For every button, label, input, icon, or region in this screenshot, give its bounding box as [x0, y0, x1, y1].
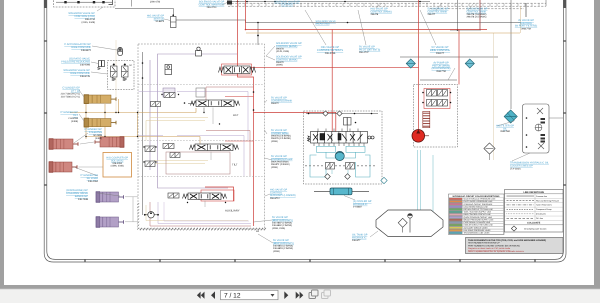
svg-text:RETURN CIRCUIT TO TANK LINE: RETURN CIRCUIT TO TANK LINE [464, 208, 494, 211]
svg-text:(7 A-CM2): (7 A-CM2) [510, 167, 521, 170]
charge pump circuit [310, 146, 370, 177]
svg-text:246-8745: 246-8745 [80, 75, 91, 78]
svg-text:MAIN HYDRAULIC PRESSURE LINE: MAIN HYDRAULIC PRESSURE LINE [464, 198, 497, 201]
svg-text:PILOT (DETENTS): PILOT (DETENTS) [359, 48, 380, 51]
svg-text:COLLIGATE: COLLIGATE [527, 222, 541, 225]
pilot supply line [306, 113, 378, 115]
cylinder connection wires [79, 142, 139, 222]
svg-text:246-8854 (2 BANK): 246-8854 (2 BANK) [273, 245, 293, 248]
svg-text:2-H3887: 2-H3887 [353, 206, 363, 209]
wire orange lines [70, 33, 520, 139]
charge pump [335, 151, 344, 160]
svg-text:TILT: TILT [232, 163, 238, 167]
svg-text:246-7638: 246-7638 [78, 198, 89, 201]
seat valve [171, 17, 177, 28]
reducing valve block [344, 118, 352, 126]
svg-text:HYDRAULIC: HYDRAULIC [352, 236, 367, 239]
svg-text:(4145, 4346): (4145, 4346) [276, 50, 289, 53]
svg-text:(4396): (4396) [71, 120, 78, 123]
svg-text:M: M [130, 64, 132, 67]
coupler cylinder 2 [96, 217, 124, 228]
svg-text:CASE DRAIN / LEAKAGE LINE: CASE DRAIN / LEAKAGE LINE [464, 221, 491, 224]
wire teal return lines [332, 150, 433, 222]
svg-text:QUICK COUPLER CIRCUIT LINE: QUICK COUPLER CIRCUIT LINE [464, 216, 493, 219]
svg-text:296476 (2.5 BANK): 296476 (2.5 BANK) [271, 137, 291, 140]
breather [484, 143, 495, 154]
check valve [165, 65, 172, 75]
enclosure pilot filter manifold [304, 111, 383, 184]
svg-text:296478: 296478 [371, 13, 379, 16]
quick coupler group box [103, 153, 132, 178]
svg-text:296477M: 296477M [436, 70, 446, 73]
enclosure ride control block [108, 61, 135, 90]
svg-text:(4396): (4396) [276, 64, 283, 67]
svg-text:HIGH NUMBER REVISIONS UP: HIGH NUMBER REVISIONS UP [468, 242, 500, 245]
svg-text:246-8862 (2 BANK): 246-8862 (2 BANK) [272, 224, 292, 227]
svg-text:296478 (2.8 BANK): 296478 (2.8 BANK) [271, 135, 291, 138]
svg-text:LINE DEFINITIONS: LINE DEFINITIONS [523, 191, 544, 194]
svg-text:FAN DRIVE PRESSURE LINES: FAN DRIVE PRESSURE LINES [464, 229, 492, 232]
note box [466, 238, 564, 254]
svg-text:STEERING CIRCUIT PRESSURE: STEERING CIRCUIT PRESSURE [464, 203, 493, 206]
svg-text:Diagrams as down loads on CAT: Diagrams as down loads on CAT portal med… [468, 247, 511, 250]
hand pump [148, 212, 154, 218]
svg-text:Oil - line: Oil - line [536, 217, 543, 220]
svg-text:296478 (2.5 BANK): 296478 (2.5 BANK) [467, 16, 487, 19]
svg-text:Oil sampling valve location: Oil sampling valve location [524, 227, 546, 230]
main hydraulic manifold [307, 132, 374, 144]
enclosure main control valve [138, 44, 265, 229]
svg-text:HYDRAULIC CIRCUIT COLOR DESCRI: HYDRAULIC CIRCUIT COLOR DESCRIPTIONS [453, 195, 500, 198]
toolbar [0, 289, 600, 303]
enclosure pilot control manifold [54, 0, 116, 7]
svg-text:(W PORT FILTERS): (W PORT FILTERS) [515, 25, 538, 28]
auxiliary section wiring loops [146, 202, 251, 226]
control valve AUXILIARY section [183, 193, 227, 200]
lift cylinder 1 [84, 95, 116, 104]
oil cooler [314, 190, 369, 192]
wire dashed enclosure top [228, 3, 546, 9]
svg-text:(4396, 4346): (4396, 4346) [111, 165, 124, 168]
svg-text:(4396): (4396) [273, 250, 280, 253]
svg-text:TANK / SUCTION SUPPLY LINE: TANK / SUCTION SUPPLY LINE [464, 211, 492, 214]
svg-text:Refer to updated latest files: Refer to updated latest files for hydrau… [468, 250, 524, 253]
svg-text:296477M: 296477M [521, 27, 531, 30]
main piston pump [412, 130, 425, 143]
svg-text:LIFT: LIFT [233, 113, 239, 117]
svg-text:LOADER(S) BANK: LOADER(S) BANK [271, 99, 292, 102]
svg-text:246-4054: 246-4054 [112, 162, 122, 165]
svg-text:AUXILIARY: AUXILIARY [225, 209, 240, 213]
svg-text:296477: 296477 [436, 52, 445, 55]
svg-text:AUXILIARY (LOADER): AUXILIARY (LOADER) [270, 194, 296, 197]
svg-text:246-8871: 246-8871 [81, 49, 92, 52]
pump servo spring [423, 111, 430, 127]
svg-text:51-8875: 51-8875 [156, 20, 165, 23]
pump control valves [427, 90, 437, 97]
wire top bus [115, 0, 521, 215]
ride control valve [219, 66, 256, 74]
svg-text:296-4736: 296-4736 [325, 52, 336, 55]
svg-text:COOLER LINES GP: COOLER LINES GP [510, 165, 533, 168]
svg-text:7 / 12: 7 / 12 [224, 292, 241, 299]
svg-text:CONTROL (BANK): CONTROL (BANK) [276, 58, 297, 61]
svg-text:296HP2 (2 BANK): 296HP2 (2 BANK) [271, 163, 290, 166]
svg-text:296-4737: 296-4737 [359, 51, 369, 54]
steering cylinder lower [49, 162, 77, 173]
svg-text:PILOT SUPPLY PRESSURE LINE: PILOT SUPPLY PRESSURE LINE [464, 200, 494, 203]
svg-text:(Enclosure): (Enclosure) [536, 213, 546, 216]
svg-text:296-4714: 296-4714 [207, 6, 217, 9]
svg-text:296478: 296478 [276, 48, 284, 51]
pilot valves under pump [326, 163, 335, 170]
svg-text:(4396): (4396) [271, 140, 278, 143]
svg-text:THIS DOCUMENTS IN THE TOS (TOS: THIS DOCUMENTS IN THE TOS (TOS, COO, and… [468, 239, 546, 242]
svg-text:LOADER(S) PUMP: LOADER(S) PUMP [271, 158, 293, 161]
enclosure pump group [414, 85, 458, 148]
svg-text:Component Group: Component Group [536, 208, 552, 211]
svg-text:296-8712: 296-8712 [270, 197, 280, 200]
wire purple pilot lines [150, 54, 237, 188]
svg-text:Tank / Return lines: Tank / Return lines [536, 204, 552, 207]
svg-text:(296-479): (296-479) [150, 1, 161, 4]
lift cylinder 2 [84, 118, 116, 127]
legend color table [449, 194, 505, 235]
manifold stub glyph [227, 1, 232, 5]
svg-text:(W ALTERNATE): (W ALTERNATE) [432, 67, 451, 70]
legend line definitions table [505, 190, 564, 233]
svg-text:(4396): (4396) [271, 166, 278, 169]
toolbar history icons [309, 290, 318, 299]
svg-text:TRANSMISSION LUBE LINES: TRANSMISSION LUBE LINES [464, 232, 491, 235]
wire dark red line [479, 0, 481, 30]
svg-text:296472: 296472 [271, 102, 279, 105]
relief valve with gauge [196, 51, 202, 57]
solenoid valve group A [56, 1, 112, 3]
svg-text:(BKW AUXILIARY): (BKW AUXILIARY) [273, 242, 294, 245]
svg-text:COOLER CIRCUIT RETURN LINE: COOLER CIRCUIT RETURN LINE [464, 224, 494, 227]
svg-text:CONTROL: CONTROL [281, 3, 294, 6]
svg-text:BRAKE PRESSURE SUPPLY LINE: BRAKE PRESSURE SUPPLY LINE [464, 218, 495, 221]
svg-text:CONTROL (BANK): CONTROL (BANK) [276, 45, 297, 48]
svg-text:296470: 296470 [276, 61, 284, 64]
control valve LIFT section [191, 100, 240, 107]
suction filter 1 [406, 59, 415, 68]
svg-text:LOADER BANK: LOADER BANK [271, 132, 289, 135]
steering cylinder left [49, 139, 78, 150]
svg-text:(HEAD END): (HEAD END) [316, 23, 330, 26]
coupler cylinder 1 [96, 192, 124, 203]
svg-text:246-2887 (2 BANK): 246-2887 (2 BANK) [272, 222, 292, 225]
drawing frame border [44, 0, 566, 262]
svg-text:296477: 296477 [428, 13, 436, 16]
svg-text:296478 (2.8 BANK): 296478 (2.8 BANK) [467, 13, 487, 16]
svg-text:296478M: 296478M [500, 130, 510, 133]
svg-text:246-9098: 246-9098 [80, 64, 91, 67]
toolbar last page button [296, 292, 304, 299]
svg-text:246-877: 246-877 [352, 239, 361, 242]
pressure reducing valve [99, 61, 105, 67]
svg-text:PART NUMBER LOADING CHANGE (NS: PART NUMBER LOADING CHANGE (NS VERSION) [468, 244, 520, 247]
svg-text:CONTROL BANK: CONTROL BANK [428, 10, 448, 13]
transmission oil module [523, 104, 550, 153]
control valve TILT section [190, 144, 239, 151]
svg-text:(BKW AUXILIARY): (BKW AUXILIARY) [272, 219, 293, 222]
pilot module [163, 88, 175, 97]
suction filter 2 [465, 59, 474, 68]
svg-text:Pressure line: Pressure line [536, 195, 547, 198]
svg-text:Pilot and Steering Pressure: Pilot and Steering Pressure [536, 199, 559, 202]
svg-text:OIL: OIL [503, 127, 508, 130]
svg-text:RIDE CONTROL CIRCUIT LINE: RIDE CONTROL CIRCUIT LINE [464, 213, 492, 216]
svg-text:CONTROL MANIFOLD: CONTROL MANIFOLD [199, 3, 225, 6]
svg-text:(4399): (4399) [95, 137, 102, 140]
toolbar first page button [197, 292, 205, 299]
svg-text:(4145, 4346): (4145, 4346) [81, 21, 95, 24]
svg-text:246-4064: 246-4064 [88, 180, 99, 183]
svg-text:CONTROL (BANK): CONTROL (BANK) [371, 10, 392, 13]
svg-text:246-8853 (2 BANK): 246-8853 (2 BANK) [273, 247, 293, 250]
svg-text:AUXILIARY CIRCUIT LINES: AUXILIARY CIRCUIT LINES [464, 226, 489, 229]
svg-text:CONTROL BANK: CONTROL BANK [467, 10, 487, 13]
wire red supply lines [201, 0, 487, 226]
svg-text:216-7286 (A.CYL): 216-7286 (A.CYL) [61, 95, 80, 98]
svg-text:(4396, 4346): (4396, 4346) [272, 227, 285, 230]
label pointer lines [74, 3, 530, 244]
svg-text:LOAD SENSE SIGNAL LINE: LOAD SENSE SIGNAL LINE [464, 205, 489, 208]
svg-text:SEAT (S): SEAT (S) [154, 17, 164, 20]
case drain filter [504, 110, 517, 123]
toolbar next page button [284, 291, 288, 299]
ride control solenoid valves [111, 64, 118, 81]
accumulator ride control [118, 48, 123, 56]
steering cylinder right [95, 137, 124, 148]
toolbar page number box [221, 290, 279, 299]
svg-text:296A-PM2 BANK: 296A-PM2 BANK [271, 161, 289, 164]
toolbar previous page button [211, 291, 215, 299]
enclosure bottom slashes [140, 228, 266, 231]
svg-text:HYDRAULIC: HYDRAULIC [353, 203, 368, 206]
svg-text:SOL (AUX): SOL (AUX) [111, 159, 124, 162]
hydraulic tank [376, 210, 443, 237]
LIFT section wiring [139, 92, 249, 177]
